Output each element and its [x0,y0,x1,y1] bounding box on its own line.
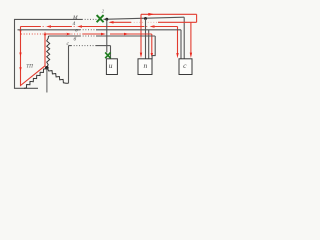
svg-text:ТП: ТП [26,64,33,70]
svg-text:2: 2 [102,9,105,14]
svg-text:б: б [74,36,77,43]
svg-text:с: с [67,41,70,47]
svg-text:и: и [109,61,113,70]
svg-text:п: п [144,61,148,70]
svg-text:4: 4 [73,20,76,27]
svg-text:в: в [75,27,78,33]
